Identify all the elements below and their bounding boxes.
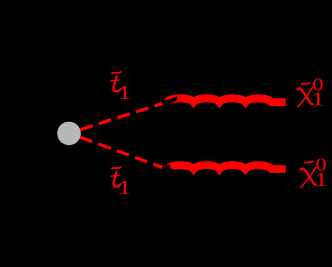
neutralino chi10 top wavy line — [167, 98, 286, 102]
label stop t1 top: tilde — [111, 72, 121, 74]
label stop t1 top: letter t — [111, 76, 121, 92]
svg-text:1: 1 — [118, 82, 131, 104]
svg-text:1: 1 — [315, 169, 328, 191]
neutralino chi10 bottom wavy line — [167, 165, 286, 169]
top quark line bottom (black over wavy) — [165, 165, 177, 176]
stop squark t1 top dashed propagator — [69, 103, 162, 133]
wire: incoming line upper-left (black, invisible) — [10, 90, 69, 133]
wire: incoming line lower-left (black, invisible) — [10, 133, 69, 176]
label neutralino bottom: letter chi — [300, 167, 316, 188]
label stop t1 bottom: tilde — [111, 167, 121, 169]
primary vertex blob — [57, 122, 81, 146]
svg-text:1: 1 — [118, 177, 131, 199]
stop squark t1 bottom dashed propagator — [69, 133, 162, 167]
label neutralino top: letter chi — [297, 86, 313, 107]
top quark line top (black over wavy) — [165, 96, 177, 107]
label stop t1 bottom: letter t — [111, 171, 121, 187]
label neutralino bottom: tilde — [305, 161, 314, 163]
label neutralino top: tilde — [301, 83, 310, 85]
svg-text:1: 1 — [311, 89, 324, 111]
